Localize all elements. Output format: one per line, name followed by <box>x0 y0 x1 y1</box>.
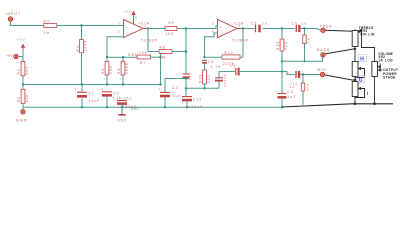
svg-text:-: - <box>126 32 127 36</box>
svg-text:R10: R10 <box>199 74 203 83</box>
wire R3 to opamp +in <box>57 25 124 27</box>
capacitor C12 series mid <box>296 71 299 78</box>
svg-text:C11: C11 <box>124 97 133 101</box>
svg-text:R5: R5 <box>101 68 105 74</box>
svg-text:R8: R8 <box>160 46 166 50</box>
wire +9V pad to divider <box>18 52 23 57</box>
resistor R4 <box>81 26 83 85</box>
resistor R10 <box>203 70 207 84</box>
capacitor C3 <box>164 79 166 108</box>
svg-text:R7: R7 <box>140 61 146 65</box>
svg-text:1u: 1u <box>302 21 308 25</box>
capacitor C4 <box>278 94 287 98</box>
svg-text:10K: 10K <box>139 51 148 55</box>
svg-text:C6: C6 <box>231 64 237 68</box>
black wire bottom bus <box>352 103 393 105</box>
svg-text:220: 220 <box>207 74 211 83</box>
node VREF junction at divider <box>22 83 24 85</box>
svg-text:10K: 10K <box>25 65 29 74</box>
resistor R9 <box>148 28 186 30</box>
resistor R8 <box>159 50 172 54</box>
svg-text:H: H <box>360 56 364 62</box>
svg-text:IC1B: IC1B <box>234 21 245 25</box>
wire mid column x186 <box>185 29 187 98</box>
pad BASS <box>321 53 325 57</box>
svg-text:1uF: 1uF <box>113 97 122 101</box>
black wire ground diagonal <box>282 104 352 107</box>
svg-text:R3: R3 <box>44 20 50 24</box>
svg-text:1K LOG: 1K LOG <box>378 58 393 62</box>
svg-text:C2: C2 <box>114 92 120 96</box>
svg-text:+: + <box>159 88 161 92</box>
svg-text:1u: 1u <box>290 85 295 89</box>
svg-text:22K: 22K <box>284 41 288 50</box>
svg-text:C3: C3 <box>173 86 179 90</box>
label OUTPUT POWER STAGE <box>379 69 382 71</box>
svg-text:C4: C4 <box>288 90 294 94</box>
svg-text:C5: C5 <box>251 21 257 25</box>
svg-text:I: I <box>367 91 368 96</box>
potentiometer TREBLE VR3 <box>352 29 374 62</box>
wire VREF bus <box>23 52 161 85</box>
svg-text:1M: 1M <box>44 31 51 35</box>
resistor R2 <box>22 104 24 108</box>
svg-text:TL082P: TL082P <box>232 39 249 43</box>
svg-text:IC1A: IC1A <box>139 21 150 25</box>
wire IC1B output row <box>243 28 295 30</box>
svg-text:1u: 1u <box>262 21 268 25</box>
svg-text:MID: MID <box>318 68 327 72</box>
pad +9V <box>14 54 18 58</box>
ground symbol at bus <box>121 107 123 114</box>
svg-text:+: + <box>126 25 128 29</box>
svg-text:100nF: 100nF <box>223 73 227 87</box>
resistor R14 <box>304 29 306 62</box>
black wire BASS pad to pot node <box>325 49 355 54</box>
svg-text:R6: R6 <box>117 68 121 74</box>
resistor R15 <box>302 75 304 105</box>
svg-text:2.2K: 2.2K <box>211 65 222 69</box>
wire input pad to R3 <box>11 21 44 25</box>
black wire TREB pad to pot <box>325 30 355 31</box>
svg-text:G: G <box>359 77 363 83</box>
resistor R13 <box>281 29 283 94</box>
wire IC1B out down to feedback <box>242 29 244 58</box>
svg-text:10K: 10K <box>25 93 29 102</box>
wire inverting node row <box>107 56 137 58</box>
svg-text:GND: GND <box>131 107 140 111</box>
net label G <box>357 76 365 83</box>
svg-text:R4: R4 <box>76 45 80 51</box>
svg-text:100: 100 <box>166 32 175 36</box>
potentiometer MID <box>352 82 364 104</box>
capacitor C10 at x187 <box>182 97 192 101</box>
capacitor C6b series <box>236 68 239 76</box>
svg-text:+: + <box>101 88 103 92</box>
svg-text:47K LIN: 47K LIN <box>360 32 375 36</box>
potentiometer VOLUME VR2 <box>372 62 380 104</box>
resistor R7 <box>151 56 161 58</box>
svg-text:+: + <box>275 90 277 94</box>
supply arrow +9V <box>17 38 26 52</box>
capacitor C5 <box>256 25 260 33</box>
svg-text:1M: 1M <box>160 56 167 60</box>
svg-text:+: + <box>220 25 222 29</box>
capacitor C8 <box>202 60 207 63</box>
svg-text:GND: GND <box>16 118 28 122</box>
svg-text:BASS: BASS <box>317 48 330 52</box>
svg-text:STAGE: STAGE <box>383 75 396 79</box>
wire to IC1B +in <box>186 26 218 29</box>
svg-text:C1: C1 <box>89 91 95 95</box>
svg-text:10uF: 10uF <box>89 99 101 103</box>
svg-text:2u2: 2u2 <box>188 72 192 80</box>
resistor R3 <box>44 24 57 28</box>
svg-text:10K: 10K <box>306 83 310 91</box>
black wire MID pad to pot node <box>325 75 355 80</box>
wire y79 row <box>165 78 186 80</box>
op-amp IC1A <box>124 15 149 38</box>
capacitor C9 <box>296 25 299 32</box>
resistor R1 <box>22 57 24 90</box>
wire MID row y71.5-74.5 <box>282 72 295 75</box>
pad TREB <box>321 28 325 32</box>
svg-text:TL082P: TL082P <box>141 39 158 43</box>
capacitor C2 <box>106 97 108 108</box>
svg-text:R12: R12 <box>225 51 234 55</box>
wire y88 row <box>186 87 219 89</box>
capacitor C1 <box>81 85 83 108</box>
svg-text:R9: R9 <box>169 21 175 25</box>
wire IC1B -in <box>205 33 218 57</box>
svg-text:100nF: 100nF <box>189 105 204 109</box>
svg-text:R1: R1 <box>17 68 21 74</box>
svg-text:+9V: +9V <box>17 38 26 42</box>
svg-text:INPUT: INPUT <box>6 12 22 16</box>
svg-text:4u7: 4u7 <box>288 95 297 99</box>
svg-text:1uF: 1uF <box>173 94 182 98</box>
svg-text:100K: 100K <box>84 39 88 51</box>
svg-text:+9V: +9V <box>124 9 132 13</box>
svg-text:GND: GND <box>117 119 127 123</box>
capacitor C6 inline x186 <box>183 74 190 78</box>
junction node input/R4 <box>80 24 82 26</box>
svg-text:1K: 1K <box>307 37 311 43</box>
wire C7 top to mid row <box>219 71 235 73</box>
svg-text:+: + <box>75 88 77 92</box>
resistor R12 feedback <box>205 56 244 58</box>
wire R8 left leg <box>148 29 159 52</box>
pad INPUT <box>8 17 12 21</box>
capacitor C11 100nF <box>121 105 123 108</box>
resistor R6 <box>122 57 124 84</box>
svg-text:R13: R13 <box>276 41 280 50</box>
capacitor C7 100nF <box>218 72 220 89</box>
svg-text:C8: C8 <box>208 60 214 64</box>
svg-text:10K: 10K <box>109 65 113 74</box>
svg-text:C9: C9 <box>292 21 298 25</box>
svg-text:-: - <box>220 32 221 36</box>
svg-text:R2: R2 <box>17 96 21 102</box>
wire ground bus <box>23 106 282 108</box>
svg-text:TREB: TREB <box>320 24 333 28</box>
wire IC1A -in <box>107 33 124 57</box>
potentiometer BASS <box>352 62 364 82</box>
net label H <box>358 54 366 61</box>
svg-text:100K: 100K <box>125 62 129 74</box>
resistor R5 <box>106 57 108 84</box>
svg-text:+9V: +9V <box>6 54 13 58</box>
op-amp IC1B <box>218 20 244 38</box>
wire C9 to TREB pad <box>301 29 321 31</box>
node after C5 <box>281 27 283 29</box>
pad GND <box>22 107 24 109</box>
wire BASS row y61 <box>282 57 323 61</box>
svg-text:GND: GND <box>128 53 139 57</box>
svg-text:C10: C10 <box>193 98 202 102</box>
pad MID <box>320 72 324 76</box>
